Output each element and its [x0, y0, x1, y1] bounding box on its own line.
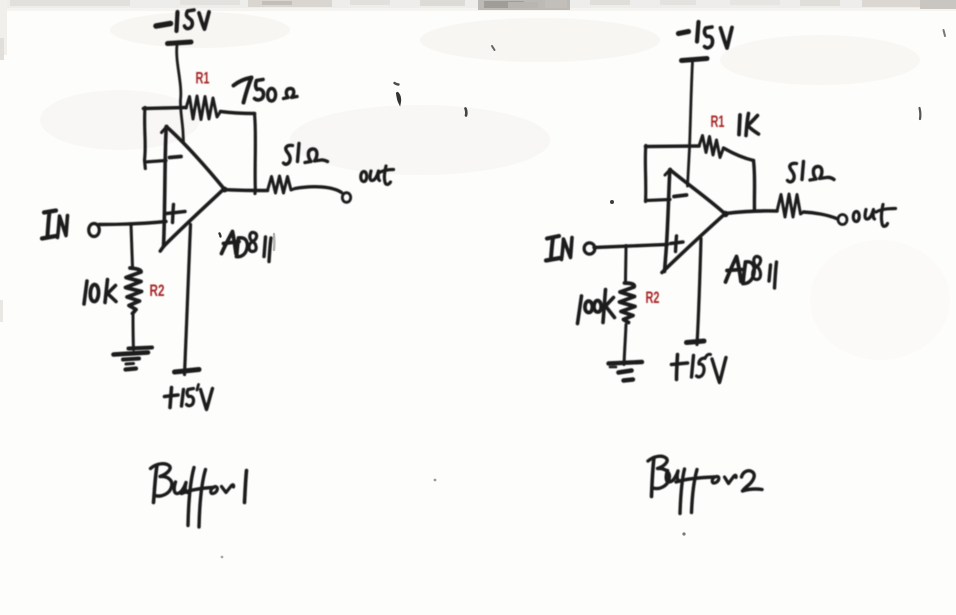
node IN terminal circle (Buffer 1)	[89, 224, 100, 237]
node output junction at U2 apex	[722, 211, 728, 217]
resistor 51 ohm output zigzag (Buffer 2)	[777, 194, 804, 217]
node junction IN/R2 (Buffer 2)	[624, 244, 628, 248]
node junction IN/R2	[129, 223, 133, 227]
wire 51 ohm to out terminal (Buffer 2)	[804, 212, 837, 219]
node out terminal circle (Buffer 2)	[838, 215, 847, 225]
wire IN to U1 non-inverting input	[99, 222, 166, 225]
wire R2 to ground (Buffer 2)	[624, 325, 626, 365]
value label 1K	[739, 114, 759, 136]
node IN terminal circle (Buffer 2)	[584, 243, 595, 254]
wire feedback top-left horizontal (Buffer 2)	[646, 144, 700, 148]
svg-text:R1: R1	[196, 70, 210, 88]
node label IN (Buffer 2)	[546, 236, 572, 261]
node output junction at U1 apex	[222, 187, 228, 193]
op-amp U2 AD811 triangle (Buffer 2)	[662, 169, 725, 272]
wire U1 V+ pin down to +15V bar	[185, 225, 191, 375]
wire from -15V bar down to op-amp U1 V- pin	[177, 45, 184, 143]
wire IN to U2 non-inverting input	[594, 245, 668, 248]
U1 non-inverting input plus symbol	[167, 205, 186, 223]
net +15V label (Buffer 1 positive supply)	[165, 385, 213, 410]
wire feedback left vertical	[143, 108, 147, 169]
resistor R2 100K zigzag (Buffer 2)	[620, 283, 636, 323]
net +15V label (Buffer 2 positive supply)	[672, 354, 727, 382]
wire 51 ohm to out terminal	[295, 187, 342, 193]
value label 750 ohm	[234, 78, 298, 103]
value label 51 ohm	[284, 144, 328, 165]
wire feedback top-left horizontal	[144, 108, 187, 109]
caption Buffer 2	[648, 456, 762, 513]
svg-text:R2: R2	[646, 289, 660, 307]
wire feedback right vertical down to output node	[253, 114, 257, 194]
net -15V label (Buffer 1 negative supply)	[156, 10, 209, 31]
wire feedback right horizontal after R1 (Buffer 2)	[724, 148, 754, 161]
wire from -15V bar down to op-amp U2 V- pin	[688, 62, 693, 187]
wire junction down to R2 (Buffer 2)	[624, 246, 628, 283]
svg-text:R1: R1	[711, 113, 725, 131]
resistor R1 1K zigzag (Buffer 2)	[699, 136, 724, 158]
node label out (Buffer 2)	[853, 205, 895, 227]
node label IN (Buffer 1)	[42, 211, 68, 239]
svg-text:R2: R2	[150, 282, 165, 300]
wire U2 output to 51 ohm resistor	[726, 211, 778, 214]
ground symbol (Buffer 1)	[114, 348, 153, 370]
node out terminal circle (Buffer 1)	[342, 193, 350, 203]
wire feedback stub to U2 inverting input	[646, 200, 671, 201]
supply terminal bar -15V (Buffer 2)	[682, 59, 708, 61]
part label AD811 (U1)	[222, 232, 272, 262]
resistor R2 10k zigzag (Buffer 1)	[126, 268, 142, 314]
op-amp U1 AD811 triangle (Buffer 1)	[160, 126, 224, 251]
supply terminal bar +15V (Buffer 1)	[175, 370, 200, 373]
resistor 51 ohm output zigzag (Buffer 1)	[268, 176, 296, 193]
net -15V label (Buffer 2 negative supply)	[679, 22, 733, 48]
wire junction down to R2	[131, 225, 133, 268]
wire feedback stub to U1 inverting input	[145, 161, 166, 163]
U2 non-inverting input plus symbol	[671, 236, 684, 252]
value label 100K	[578, 290, 615, 324]
value label 51 ohm (Buffer 2)	[788, 162, 835, 182]
value label 10k	[84, 280, 116, 305]
wire feedback right vertical down to output node (Buffer 2)	[754, 161, 755, 211]
resistor R1 750ohm zigzag (Buffer 1)	[186, 96, 221, 120]
ground symbol (Buffer 2)	[609, 362, 643, 381]
wire U1 output to 51 ohm resistor	[225, 190, 268, 191]
wire R2 to ground	[132, 315, 136, 350]
wire feedback left vertical (Buffer 2)	[644, 146, 648, 202]
wire U2 V+ pin down to +15V bar	[697, 239, 701, 345]
part label AD811 (U2)	[726, 256, 777, 288]
U1 inverting input minus symbol	[170, 157, 182, 158]
node label out (Buffer 1)	[361, 166, 394, 184]
caption Buffer 1	[151, 464, 247, 527]
supply terminal bar -15V (Buffer 1)	[168, 42, 192, 44]
supply terminal bar +15V (Buffer 2)	[687, 341, 705, 343]
U2 inverting input minus symbol	[674, 195, 687, 197]
wire feedback right horizontal after R1	[221, 112, 255, 114]
